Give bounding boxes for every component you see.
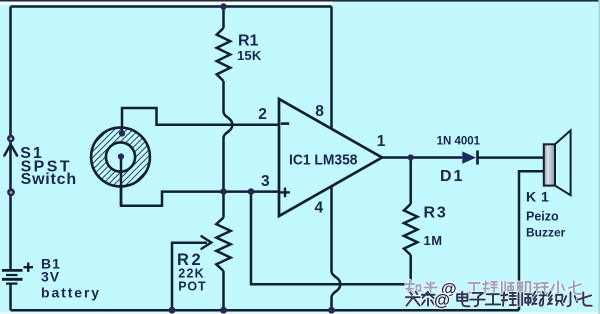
svg-text:D1: D1	[440, 168, 464, 185]
node pin3 / feedback junction	[248, 188, 255, 195]
node sensor top terminal	[119, 130, 125, 136]
op-amp minus sign	[281, 122, 289, 125]
switch S1 terminal bottom	[7, 188, 15, 196]
svg-text:3: 3	[261, 173, 270, 190]
resistor R1	[217, 28, 231, 81]
node top rail / R1 junction	[220, 3, 226, 9]
battery plus sign	[24, 263, 34, 272]
wire R1 top stub	[222, 7, 225, 29]
svg-text:4: 4	[315, 199, 324, 216]
wire R3 bottom stub	[409, 255, 412, 284]
watermark line2	[406, 292, 592, 307]
wire op-amp pin 4 to bottom rail with hop over feedback wire	[332, 186, 341, 310]
sensor MIC1 inner disc	[106, 142, 135, 171]
svg-text:1: 1	[377, 133, 386, 150]
wire R1 bottom with hop over pin2 wire	[224, 81, 233, 192]
svg-text:15K: 15K	[237, 48, 262, 63]
svg-text:1M: 1M	[424, 233, 443, 248]
op-amp plus sign	[280, 188, 290, 198]
buzzer K1 cone	[555, 130, 571, 195]
bottom white strip	[0, 312, 600, 314]
wire bottom rail	[11, 309, 520, 312]
wire left rail (battery to top)	[9, 7, 12, 270]
svg-text:2: 2	[258, 106, 267, 123]
top white strip	[0, 2, 333, 5]
sensor MIC1 outer case hatched	[91, 128, 150, 187]
node bottom rail / pin4 junction	[328, 307, 335, 314]
node pin3 / R1 / R2 junction	[220, 188, 227, 195]
wire buzzer return	[519, 171, 544, 310]
buzzer K1 body plate	[544, 144, 555, 185]
svg-text:POT: POT	[178, 279, 206, 293]
svg-text:@: @	[434, 292, 450, 310]
wire sensor top stub over hatch	[121, 127, 124, 134]
switch S1 arrow	[4, 144, 17, 155]
potentiometer R2	[216, 218, 230, 272]
wire sensor bottom stub over hatch	[120, 157, 123, 206]
wire R2 bottom stub	[222, 271, 225, 310]
svg-text:8: 8	[315, 103, 324, 120]
wire sensor top to pin2	[122, 108, 279, 134]
svg-text:Peizo: Peizo	[526, 209, 559, 223]
top border line	[0, 0, 600, 2]
svg-text:R3: R3	[424, 205, 448, 222]
op-amp U1 triangle	[279, 99, 382, 216]
svg-text:3V: 3V	[41, 269, 60, 285]
wire R2 top stub	[222, 192, 225, 218]
wire R2 wiper	[172, 243, 207, 311]
resistor R3	[404, 204, 418, 255]
wire feedback net (pin3 node to R3 bottom)	[251, 192, 411, 285]
svg-text:1N 4001: 1N 4001	[437, 135, 481, 147]
R2 wiper arrowhead	[202, 236, 212, 249]
wire op-amp pin 8 to top rail	[330, 7, 333, 129]
wire op-amp output to diode	[382, 156, 462, 159]
right edge tint	[598, 0, 600, 314]
node bottom rail / wiper junction	[169, 307, 176, 314]
watermark line1	[406, 281, 582, 295]
node output / R3 junction	[408, 154, 414, 160]
svg-text:Buzzer: Buzzer	[526, 225, 566, 239]
diode D1 body	[462, 151, 476, 163]
diode D1 cathode bar	[476, 150, 479, 164]
node sensor center terminal	[118, 153, 124, 159]
switch S1 terminal top	[7, 135, 15, 143]
svg-text:K 1: K 1	[526, 189, 549, 205]
battery B1	[2, 270, 23, 310]
wire sensor bottom to pin3	[121, 157, 279, 206]
wire diode to buzzer	[478, 156, 544, 159]
node bottom rail / R2 junction	[220, 307, 227, 314]
svg-text:Switch: Switch	[21, 171, 77, 188]
svg-text:IC1 LM358: IC1 LM358	[289, 152, 358, 169]
wire top rail	[11, 5, 332, 8]
svg-text:battery: battery	[41, 285, 101, 301]
wire R3 top stub	[409, 158, 412, 205]
